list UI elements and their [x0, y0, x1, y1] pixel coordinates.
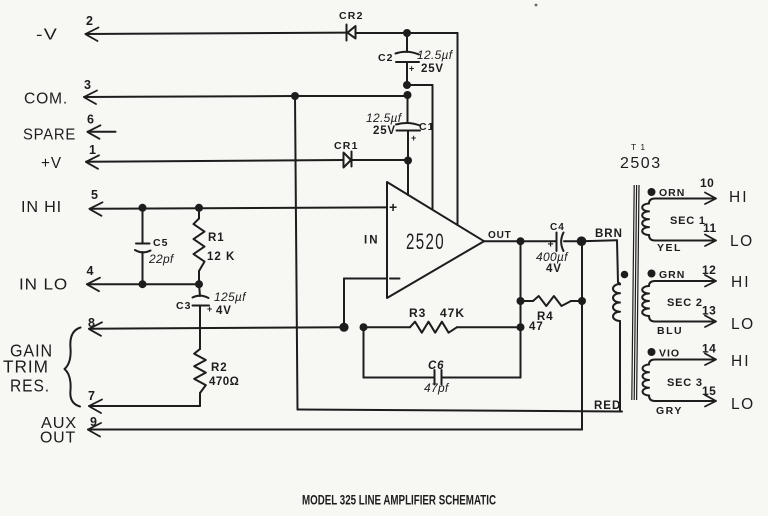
svg-text:7: 7: [88, 389, 95, 403]
svg-text:13: 13: [702, 304, 716, 318]
svg-text:6: 6: [87, 113, 94, 127]
svg-text:47K: 47K: [440, 306, 465, 320]
svg-text:C2: C2: [378, 52, 393, 64]
svg-text:IN: IN: [364, 235, 380, 247]
svg-text:C1: C1: [419, 121, 434, 133]
svg-text:CR2: CR2: [339, 10, 364, 22]
svg-text:OUT: OUT: [40, 430, 76, 447]
svg-text:BLU: BLU: [657, 325, 683, 337]
svg-text:LO: LO: [731, 396, 755, 413]
svg-text:C5: C5: [153, 237, 168, 249]
svg-text:12.5µf: 12.5µf: [417, 48, 454, 62]
svg-text:10: 10: [700, 176, 714, 190]
svg-text:LO: LO: [731, 316, 755, 333]
svg-text:4V: 4V: [216, 305, 232, 317]
svg-text:C3: C3: [176, 300, 191, 312]
svg-text:-V: -V: [36, 27, 58, 44]
svg-text:+: +: [389, 199, 398, 215]
svg-text:22pf: 22pf: [148, 252, 175, 266]
svg-text:RES.: RES.: [10, 376, 50, 396]
svg-text:VIO: VIO: [659, 348, 680, 360]
svg-text:15: 15: [702, 384, 716, 398]
svg-text:SEC 1: SEC 1: [670, 215, 706, 227]
svg-text:12 K: 12 K: [207, 251, 235, 263]
svg-text:3: 3: [84, 78, 91, 92]
svg-text:C4: C4: [550, 222, 565, 233]
svg-text:LO: LO: [730, 233, 754, 250]
svg-text:2: 2: [86, 14, 93, 28]
svg-text:9: 9: [90, 415, 97, 429]
svg-text:HI: HI: [729, 189, 749, 206]
svg-text:RED: RED: [594, 400, 621, 412]
svg-text:+: +: [207, 304, 213, 314]
svg-text:11: 11: [703, 221, 717, 235]
svg-text:SEC 3: SEC 3: [667, 377, 703, 389]
svg-text:8: 8: [88, 316, 95, 330]
svg-text:C6: C6: [428, 360, 444, 372]
svg-text:1: 1: [89, 143, 96, 157]
svg-text:MODEL 325 LINE AMPLIFIER SCHEM: MODEL 325 LINE AMPLIFIER SCHEMATIC: [302, 493, 496, 508]
svg-text:+V: +V: [41, 155, 62, 172]
svg-text:470Ω: 470Ω: [209, 376, 239, 388]
svg-text:12: 12: [702, 263, 716, 277]
svg-text:5: 5: [91, 188, 98, 202]
svg-text:2520: 2520: [406, 229, 445, 254]
svg-text:CR1: CR1: [334, 140, 359, 152]
svg-text:HI: HI: [731, 353, 751, 370]
svg-text:SEC 2: SEC 2: [667, 297, 703, 309]
svg-text:GRY: GRY: [656, 405, 683, 417]
svg-text:IN LO: IN LO: [19, 277, 68, 294]
svg-text:HI: HI: [731, 274, 751, 291]
svg-text:400µf: 400µf: [536, 250, 569, 264]
svg-text:COM.: COM.: [24, 91, 68, 108]
svg-text:IN HI: IN HI: [21, 199, 62, 216]
svg-text:47: 47: [529, 321, 544, 333]
svg-text:+: +: [548, 239, 555, 251]
svg-text:47pf: 47pf: [424, 381, 450, 395]
svg-text:YEL: YEL: [657, 242, 682, 254]
svg-text:25V: 25V: [421, 63, 444, 75]
svg-text:125µf: 125µf: [214, 290, 247, 304]
svg-text:OUT: OUT: [488, 230, 512, 241]
svg-text:R1: R1: [208, 232, 225, 244]
svg-text:25V: 25V: [373, 125, 396, 137]
svg-text:+: +: [409, 64, 415, 74]
svg-text:+: +: [411, 133, 417, 143]
svg-text:4: 4: [87, 264, 94, 278]
svg-text:14: 14: [702, 342, 716, 356]
svg-text:TRIM: TRIM: [3, 357, 49, 377]
svg-text:ORN: ORN: [659, 187, 685, 199]
svg-text:T 1: T 1: [631, 142, 646, 152]
svg-text:GRN: GRN: [659, 269, 685, 281]
svg-text:4V: 4V: [546, 263, 562, 275]
svg-text:SPARE: SPARE: [23, 127, 76, 144]
svg-text:BRN: BRN: [595, 228, 623, 240]
svg-text:2503: 2503: [620, 155, 662, 172]
svg-text:12.5µf: 12.5µf: [366, 111, 403, 125]
svg-text:R3: R3: [409, 306, 426, 320]
svg-text:R2: R2: [211, 362, 228, 374]
